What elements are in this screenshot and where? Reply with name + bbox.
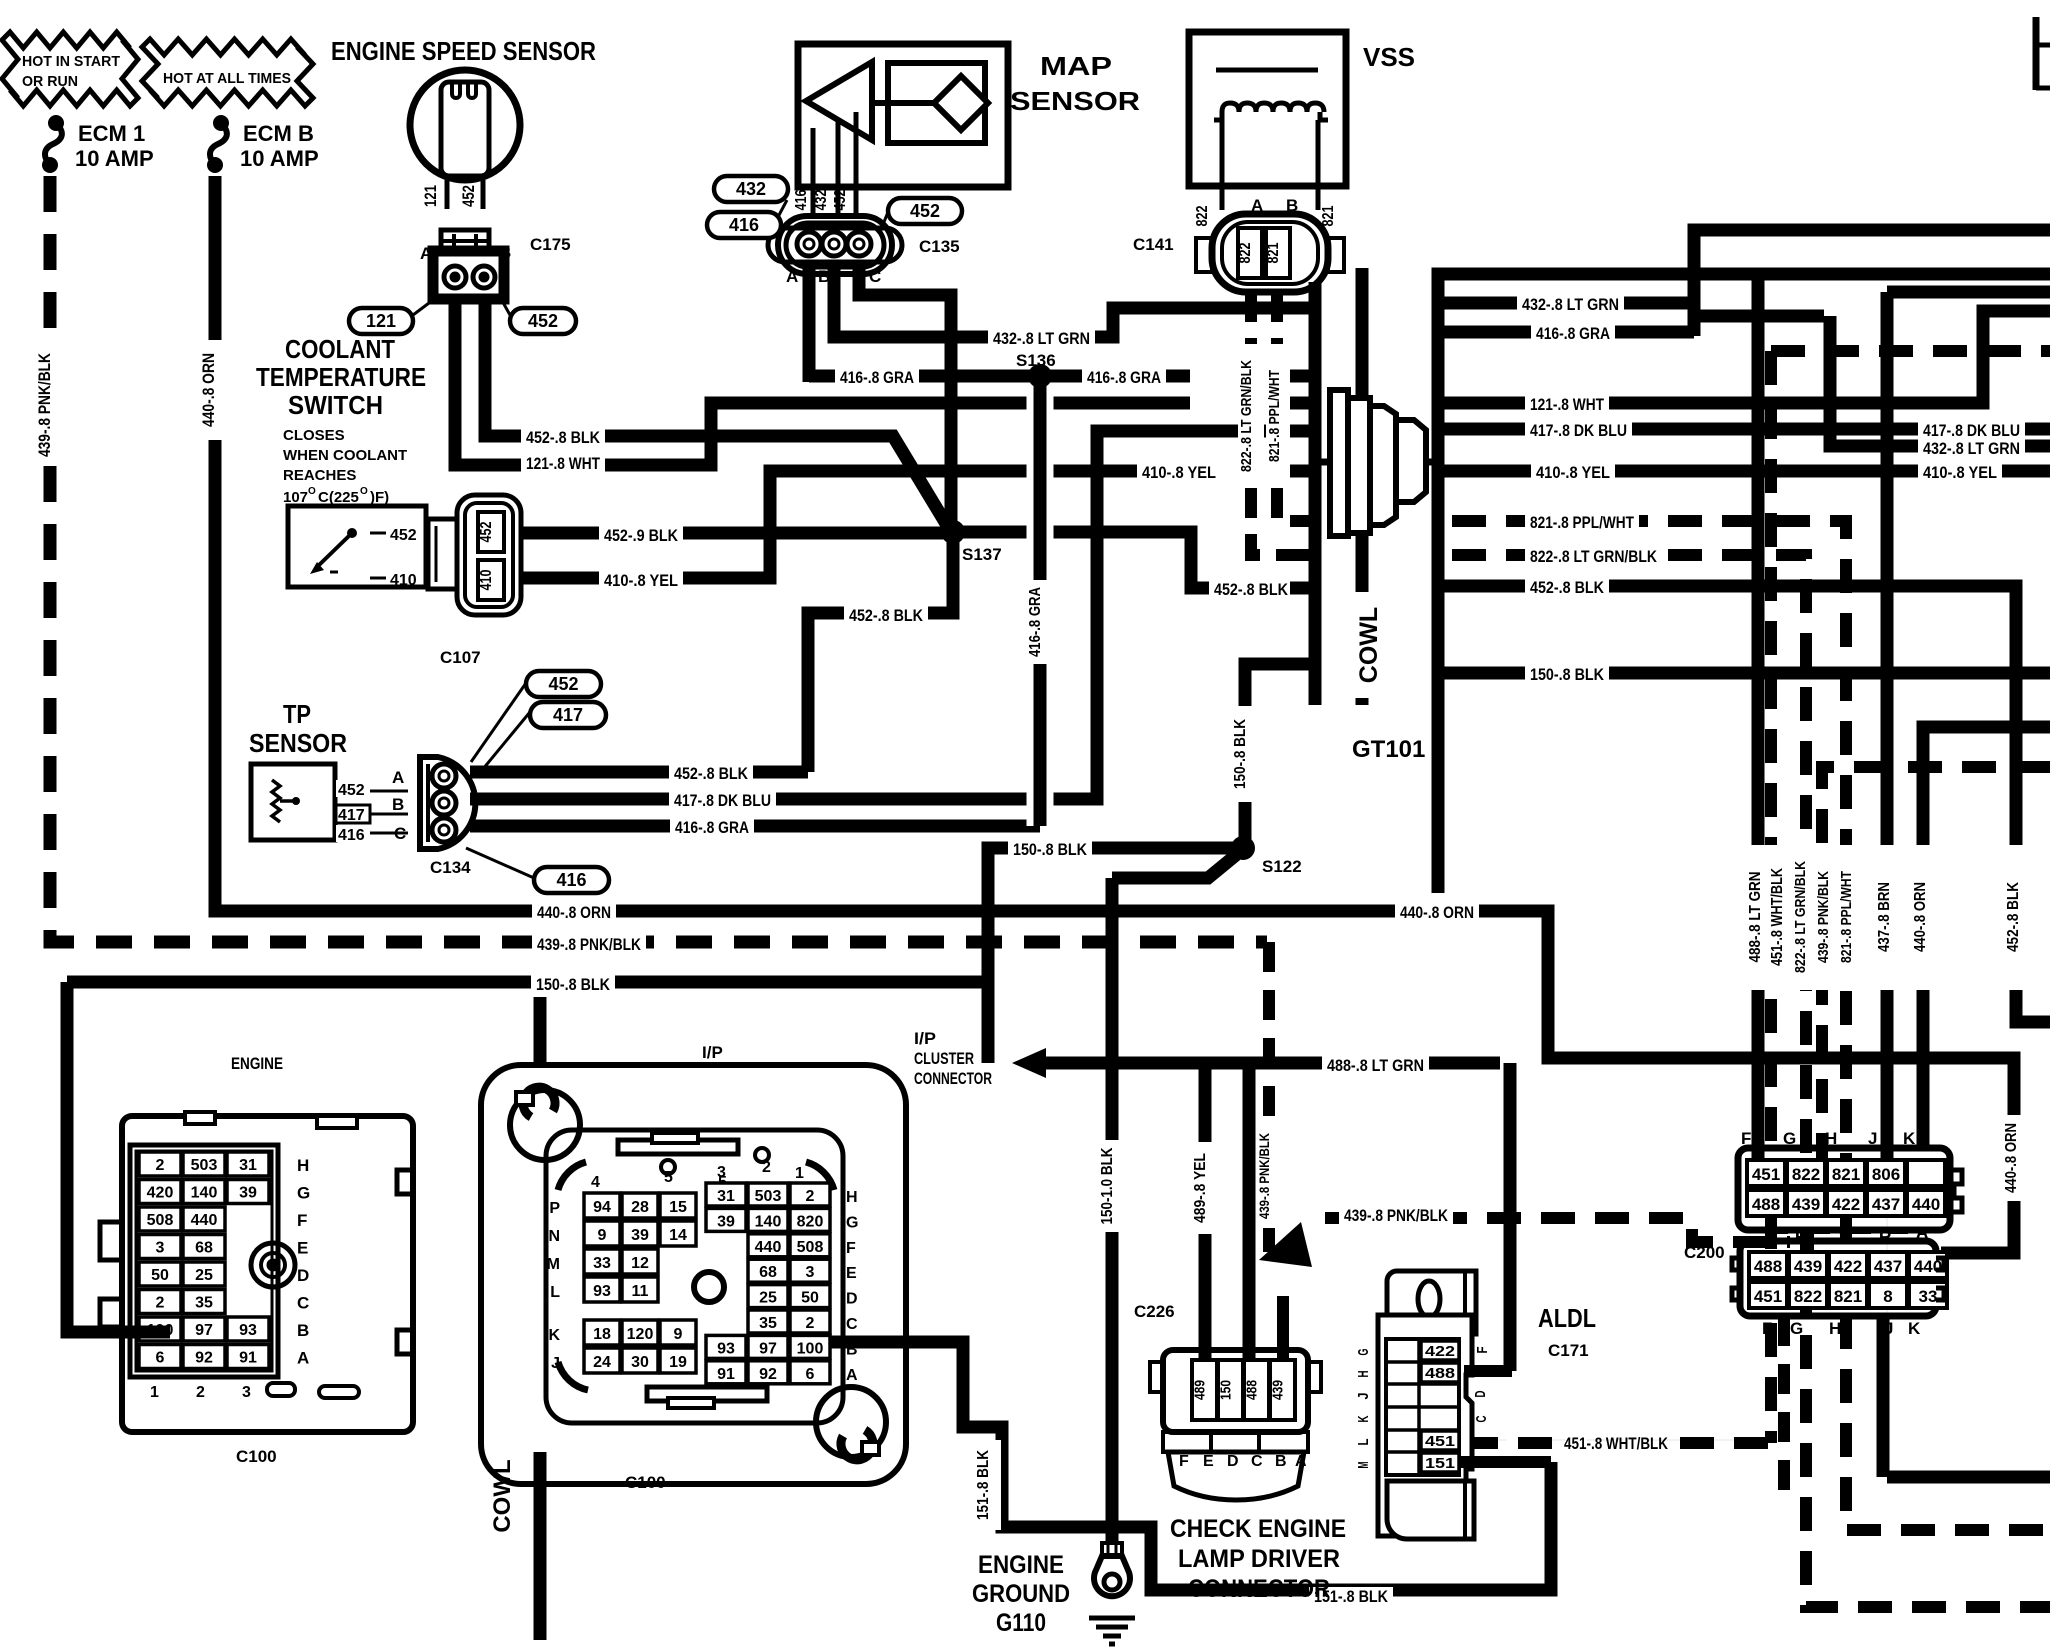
svg-text:416-.8 GRA: 416-.8 GRA bbox=[675, 818, 749, 837]
svg-text:10 AMP: 10 AMP bbox=[75, 146, 154, 171]
svg-text:151: 151 bbox=[1425, 1455, 1455, 1472]
wire 417-.8 DK BLU from C134 B bbox=[470, 431, 1309, 799]
svg-text:151-.8 BLK: 151-.8 BLK bbox=[975, 1450, 992, 1520]
oval label 452 map bbox=[880, 212, 888, 232]
wire 410-.8 YEL right bbox=[1438, 465, 2050, 478]
wire 488 drop to ALDL bbox=[1504, 1063, 1517, 1371]
engine C100 body bbox=[122, 1116, 413, 1432]
svg-text:N: N bbox=[548, 1228, 560, 1245]
dashed 822 down from C141 area bbox=[1811, 555, 1813, 560]
svg-text:C107: C107 bbox=[440, 648, 481, 667]
wire 150 into engine C100 bbox=[67, 982, 170, 1332]
tp sensor box bbox=[251, 764, 335, 840]
svg-text:121-.8 WHT: 121-.8 WHT bbox=[526, 454, 600, 473]
tp pin 416 bbox=[335, 832, 408, 835]
svg-text:ALDL: ALDL bbox=[1538, 1303, 1596, 1333]
svg-text:432-.8 LT GRN: 432-.8 LT GRN bbox=[1923, 439, 2020, 458]
svg-text:488: 488 bbox=[1754, 1257, 1782, 1276]
svg-text:H: H bbox=[297, 1156, 309, 1175]
svg-text:E: E bbox=[1203, 1453, 1214, 1470]
svg-text:437: 437 bbox=[1874, 1257, 1902, 1276]
svg-text:39: 39 bbox=[631, 1227, 649, 1244]
wire 439-.8 PNK/BLK right dashed trunk bbox=[1822, 767, 2050, 1190]
svg-text:CONNECTOR: CONNECTOR bbox=[1188, 1575, 1330, 1603]
label 440-.8 ORN mid bbox=[532, 903, 616, 925]
fuse ECM 1 10 AMP bbox=[48, 115, 64, 131]
svg-text:488: 488 bbox=[1425, 1365, 1455, 1382]
svg-text:COOLANT: COOLANT bbox=[285, 334, 395, 364]
svg-text:K: K bbox=[1903, 1129, 1916, 1148]
svg-text:150-.8 BLK: 150-.8 BLK bbox=[1530, 665, 1605, 684]
connector C134 bbox=[420, 757, 475, 849]
svg-text:G110: G110 bbox=[996, 1609, 1046, 1637]
svg-text:452: 452 bbox=[548, 674, 578, 694]
svg-text:S137: S137 bbox=[962, 545, 1002, 564]
svg-text:439: 439 bbox=[1792, 1195, 1820, 1214]
svg-text:416: 416 bbox=[793, 189, 810, 210]
label 439-.8 PNK/BLK rotated bbox=[1814, 845, 1840, 990]
svg-text:C(225: C(225 bbox=[318, 489, 359, 506]
svg-text:C175: C175 bbox=[530, 235, 571, 254]
svg-text:REACHES: REACHES bbox=[283, 467, 356, 484]
svg-text:107: 107 bbox=[283, 489, 308, 506]
svg-text:452: 452 bbox=[338, 782, 365, 799]
coolant temperature switch box bbox=[288, 506, 426, 587]
svg-text:24: 24 bbox=[593, 1354, 611, 1371]
svg-text:I/P: I/P bbox=[702, 1043, 723, 1062]
connector C141 bbox=[1212, 214, 1328, 292]
wire 150-.8 BLK left of bus bbox=[1245, 664, 1309, 848]
svg-text:TEMPERATURE: TEMPERATURE bbox=[256, 362, 426, 392]
svg-text:821-.8 PPL/WHT: 821-.8 PPL/WHT bbox=[1530, 513, 1634, 532]
label 440-.8 ORN rotated bbox=[201, 340, 227, 440]
svg-text:SWITCH: SWITCH bbox=[288, 390, 383, 420]
svg-text:97: 97 bbox=[195, 1322, 213, 1339]
svg-text:452: 452 bbox=[910, 201, 940, 221]
arrow 439 into C226 bbox=[1259, 1222, 1312, 1267]
svg-text:92: 92 bbox=[195, 1350, 213, 1367]
svg-text:452-.8 BLK: 452-.8 BLK bbox=[526, 428, 601, 447]
cowl trunk below ip C100 bbox=[534, 1452, 547, 1640]
svg-text:416-.8 GRA: 416-.8 GRA bbox=[1536, 324, 1610, 343]
svg-text:ENGINE: ENGINE bbox=[978, 1551, 1064, 1579]
svg-text:11: 11 bbox=[632, 1283, 649, 1300]
svg-text:822-.8 LT GRN/BLK: 822-.8 LT GRN/BLK bbox=[1792, 861, 1809, 973]
svg-text:488-.8 LT GRN: 488-.8 LT GRN bbox=[1747, 872, 1764, 963]
svg-text:SENSOR: SENSOR bbox=[1010, 86, 1140, 116]
vss box bbox=[1189, 32, 1346, 186]
svg-text:E: E bbox=[297, 1239, 308, 1258]
svg-text:C100: C100 bbox=[625, 1473, 666, 1492]
connector C226 lower bbox=[1163, 1432, 1308, 1452]
svg-text:439-.8 PNK/BLK: 439-.8 PNK/BLK bbox=[1256, 1133, 1272, 1219]
svg-text:121: 121 bbox=[366, 311, 396, 331]
svg-text:35: 35 bbox=[195, 1295, 213, 1312]
svg-text:3: 3 bbox=[242, 1384, 251, 1401]
wire 488 branch to C226 bbox=[1243, 1063, 1256, 1362]
connector C171 body top tab bbox=[1387, 1271, 1476, 1334]
svg-text:417-.8 DK BLU: 417-.8 DK BLU bbox=[1530, 421, 1627, 440]
svg-text:9: 9 bbox=[598, 1227, 607, 1244]
svg-text:A: A bbox=[297, 1349, 309, 1368]
svg-text:416: 416 bbox=[729, 215, 759, 235]
svg-text:439-.8 PNK/BLK: 439-.8 PNK/BLK bbox=[537, 935, 642, 954]
svg-text:ENGINE: ENGINE bbox=[231, 1054, 283, 1073]
label 488-.8 LT GRN rotated bbox=[1745, 845, 1773, 990]
wire 416-.8 GRA row with S136 bbox=[809, 370, 1190, 383]
svg-text:HOT AT ALL TIMES: HOT AT ALL TIMES bbox=[163, 70, 291, 87]
svg-text:TP: TP bbox=[283, 699, 311, 729]
cowl right bus bbox=[1438, 274, 2050, 893]
svg-text:432: 432 bbox=[736, 179, 766, 199]
svg-text:D: D bbox=[1795, 1223, 1807, 1242]
svg-text:451-.8 WHT/BLK: 451-.8 WHT/BLK bbox=[1769, 868, 1786, 966]
svg-text:489: 489 bbox=[1192, 1380, 1209, 1400]
svg-text:COWL: COWL bbox=[1355, 607, 1383, 683]
svg-text:489-.8 YEL: 489-.8 YEL bbox=[1192, 1153, 1209, 1223]
svg-text:451: 451 bbox=[1425, 1433, 1455, 1450]
wire 439-.8 PNK/BLK left dashed trunk bbox=[50, 176, 1267, 942]
wire 452 from C135 C bbox=[859, 264, 951, 524]
svg-text:503: 503 bbox=[191, 1157, 218, 1174]
svg-text:452: 452 bbox=[459, 185, 478, 207]
svg-text:100: 100 bbox=[797, 1340, 824, 1357]
svg-text:P: P bbox=[549, 1200, 560, 1217]
svg-text:J: J bbox=[1355, 1393, 1372, 1400]
svg-text:503: 503 bbox=[755, 1188, 782, 1205]
svg-text:A: A bbox=[786, 267, 798, 286]
svg-text:6: 6 bbox=[806, 1366, 815, 1383]
svg-text:A: A bbox=[846, 1367, 858, 1384]
wire 451-.8 WHT/BLK dashed trunk bbox=[1771, 345, 2050, 357]
svg-text:B: B bbox=[392, 795, 404, 814]
svg-text:G: G bbox=[1790, 1319, 1803, 1338]
wire 452-.8 BLK right bbox=[1438, 586, 2050, 1022]
svg-text:821: 821 bbox=[1320, 205, 1337, 226]
wire 437 below C200 bbox=[1877, 1316, 1890, 1477]
svg-text:15: 15 bbox=[669, 1199, 687, 1216]
svg-text:416: 416 bbox=[338, 827, 365, 844]
svg-text:MAP: MAP bbox=[1040, 51, 1112, 81]
svg-text:91: 91 bbox=[239, 1350, 257, 1367]
label 452-.8 BLK S137 drop bbox=[844, 606, 928, 628]
svg-text:439: 439 bbox=[1270, 1380, 1287, 1400]
map sensor op-amp arrow bbox=[806, 62, 872, 140]
svg-text:39: 39 bbox=[239, 1185, 257, 1202]
wire 432 branch to E riser bbox=[1700, 310, 1824, 323]
svg-text:94: 94 bbox=[593, 1199, 611, 1216]
wire 821-.8 PPL/WHT dashed right bbox=[1452, 521, 2050, 1530]
svg-text:121-.8 WHT: 121-.8 WHT bbox=[1530, 395, 1604, 414]
svg-text:4: 4 bbox=[591, 1174, 600, 1191]
svg-text:6: 6 bbox=[156, 1350, 165, 1367]
svg-text:416-.8 GRA: 416-.8 GRA bbox=[1087, 368, 1161, 387]
wire 416-.8 GRA from C134 C bbox=[470, 820, 1040, 833]
ip C100 body bbox=[481, 1065, 906, 1484]
svg-text:68: 68 bbox=[195, 1240, 213, 1257]
ip C100 inner bbox=[546, 1130, 843, 1423]
wire 440-.8 ORN right trunk bbox=[1923, 727, 2050, 1148]
svg-text:50: 50 bbox=[801, 1290, 819, 1307]
fuse ECM B 10 AMP bbox=[213, 115, 229, 131]
label 440-.8 ORN rotated bbox=[1910, 845, 1938, 990]
oval label 121 bbox=[413, 297, 437, 315]
splice S122 bbox=[1231, 836, 1255, 860]
svg-text:LAMP DRIVER: LAMP DRIVER bbox=[1178, 1545, 1340, 1573]
svg-text:J: J bbox=[1868, 1129, 1877, 1148]
connector C135 bbox=[778, 216, 892, 274]
svg-text:150: 150 bbox=[1218, 1380, 1235, 1400]
svg-text:822-.8 LT GRN/BLK: 822-.8 LT GRN/BLK bbox=[1238, 360, 1255, 472]
svg-text:2: 2 bbox=[806, 1315, 815, 1332]
svg-text:416-.8 GRA: 416-.8 GRA bbox=[840, 368, 914, 387]
svg-text:2: 2 bbox=[196, 1384, 205, 1401]
svg-text:821-.8 PPL/WHT: 821-.8 PPL/WHT bbox=[1266, 370, 1283, 462]
svg-text:9: 9 bbox=[674, 1326, 683, 1343]
connector C171 body bbox=[1378, 1315, 1472, 1536]
svg-text:410-.8 YEL: 410-.8 YEL bbox=[1536, 463, 1610, 482]
svg-text:508: 508 bbox=[147, 1212, 174, 1229]
svg-text:OR RUN: OR RUN bbox=[22, 73, 78, 90]
engine C100 grid bbox=[130, 1145, 278, 1377]
svg-text:440: 440 bbox=[1912, 1195, 1940, 1214]
svg-text:C200: C200 bbox=[1684, 1243, 1725, 1262]
connector C107 bbox=[428, 519, 457, 589]
svg-text:821: 821 bbox=[1834, 1287, 1862, 1306]
wire 121-.8 WHT from C175 A bbox=[455, 299, 1190, 465]
wire 150-1.0 BLK trunk bbox=[1106, 878, 1119, 1543]
svg-text:C: C bbox=[297, 1294, 309, 1313]
svg-text:821: 821 bbox=[1832, 1165, 1860, 1184]
label 822-.8 LT GRN/BLK rotated bbox=[1791, 845, 1817, 990]
wire 410-.8 YEL from C107 bbox=[521, 471, 1190, 578]
tp pin 417 bbox=[335, 813, 408, 816]
svg-text:M: M bbox=[547, 1256, 560, 1273]
svg-text:121: 121 bbox=[421, 185, 440, 207]
svg-text:L: L bbox=[550, 1284, 560, 1301]
splice S136 bbox=[1028, 364, 1052, 388]
svg-text:A: A bbox=[392, 768, 404, 787]
vss coil bbox=[1222, 103, 1324, 112]
svg-text:417: 417 bbox=[553, 705, 583, 725]
wire 437-.8 BRN trunk bbox=[1887, 286, 2050, 299]
svg-text:33: 33 bbox=[593, 1255, 611, 1272]
engine speed sensor leads bbox=[445, 180, 450, 209]
svg-text:D: D bbox=[1227, 1453, 1239, 1470]
svg-text:417-.8 DK BLU: 417-.8 DK BLU bbox=[1923, 421, 2020, 440]
svg-text:L: L bbox=[1355, 1439, 1372, 1446]
svg-text:2: 2 bbox=[156, 1295, 165, 1312]
cowl left bus bbox=[1309, 282, 1322, 664]
svg-text:822: 822 bbox=[1794, 1287, 1822, 1306]
wires below C200 dashed bbox=[1778, 1316, 1790, 1500]
wire 417-.8 DK BLU right bbox=[1438, 423, 2050, 436]
connector C226 body bbox=[1163, 1350, 1308, 1432]
wire 432-.8 LT GRN from C135 B bbox=[834, 264, 1309, 337]
svg-text:D: D bbox=[297, 1266, 309, 1285]
svg-text:452: 452 bbox=[832, 189, 849, 210]
wire 451-.8 WHT/BLK dashed bottom bbox=[1464, 1437, 1771, 1449]
svg-text:451: 451 bbox=[1754, 1287, 1782, 1306]
wire 452-.8 BLK S137 to bus bbox=[808, 540, 953, 772]
svg-text:410-.8 YEL: 410-.8 YEL bbox=[1142, 463, 1216, 482]
svg-text:25: 25 bbox=[195, 1267, 213, 1284]
svg-text:440-.8 ORN: 440-.8 ORN bbox=[1912, 882, 1929, 952]
svg-text:452-.8 BLK: 452-.8 BLK bbox=[849, 606, 924, 625]
svg-text:451: 451 bbox=[1752, 1165, 1780, 1184]
ground symbol bbox=[1089, 1616, 1135, 1621]
svg-text:452: 452 bbox=[390, 527, 417, 544]
label 440-.8 ORN rotated lower bbox=[2001, 1115, 2029, 1201]
svg-text:93: 93 bbox=[239, 1322, 257, 1339]
switch pin 452 bbox=[370, 532, 386, 535]
ip C100 right grid bbox=[706, 1183, 746, 1206]
svg-text:O: O bbox=[308, 486, 316, 497]
wire 416 from C135 A bbox=[803, 264, 816, 382]
wire 432-.8 LT GRN lower right bbox=[1830, 316, 2050, 446]
wire 822-.8 LT GRN/BLK dashed from C141 bbox=[1245, 292, 1257, 344]
svg-text:28: 28 bbox=[631, 1199, 649, 1216]
svg-text:C135: C135 bbox=[919, 237, 960, 256]
svg-text:H: H bbox=[1829, 1319, 1841, 1338]
wire 437 lower bbox=[1886, 1164, 1888, 1477]
svg-text:33: 33 bbox=[1919, 1287, 1938, 1306]
connector C200 upper bbox=[1738, 1148, 1950, 1230]
svg-text:F: F bbox=[1179, 1453, 1189, 1470]
svg-text:452-.8 BLK: 452-.8 BLK bbox=[2005, 882, 2022, 952]
wire 432-.8 LT GRN right bbox=[1438, 230, 2050, 303]
cowl trunk above ip C100 bbox=[534, 982, 547, 1065]
wire 416-.8 GRA riser to TP bbox=[1027, 386, 1054, 826]
svg-text:488: 488 bbox=[1752, 1195, 1780, 1214]
svg-text:452-.8 BLK: 452-.8 BLK bbox=[674, 764, 749, 783]
wire 439-.8 PNK/BLK dashed to C200 bbox=[1325, 1218, 1790, 1242]
connector C200 lower bbox=[1740, 1241, 1936, 1316]
svg-text:B: B bbox=[1275, 1453, 1287, 1470]
svg-text:F: F bbox=[1474, 1347, 1491, 1354]
svg-text:440-.8 ORN: 440-.8 ORN bbox=[537, 903, 611, 922]
svg-text:422: 422 bbox=[1832, 1195, 1860, 1214]
svg-text:A: A bbox=[1295, 1453, 1307, 1470]
svg-text:410: 410 bbox=[390, 572, 417, 589]
svg-text:2: 2 bbox=[156, 1157, 165, 1174]
connector C171 bottom tab bbox=[1387, 1481, 1474, 1539]
svg-text:432-.8 LT GRN: 432-.8 LT GRN bbox=[1522, 295, 1619, 314]
svg-text:822: 822 bbox=[1194, 205, 1211, 226]
svg-text:822-.8 LT GRN/BLK: 822-.8 LT GRN/BLK bbox=[1530, 547, 1658, 566]
svg-text:S122: S122 bbox=[1262, 857, 1302, 876]
svg-text:97: 97 bbox=[759, 1340, 777, 1357]
oval label 416 tp bbox=[466, 848, 534, 878]
label 821-.8 PPL/WHT rotated bbox=[1837, 845, 1863, 990]
svg-text:C100: C100 bbox=[236, 1447, 277, 1466]
svg-text:D: D bbox=[1472, 1390, 1489, 1397]
wire 452-.8 BLK from C134 A bbox=[470, 766, 808, 779]
wire 150-.8 BLK right bbox=[1438, 667, 2050, 680]
wire 452-.9 BLK from C107 bbox=[521, 527, 944, 540]
svg-text:K: K bbox=[1908, 1319, 1921, 1338]
svg-text:J: J bbox=[551, 1355, 560, 1372]
wire 821-.8 PPL/WHT dashed from C141 bbox=[1271, 292, 1283, 344]
svg-text:140: 140 bbox=[191, 1185, 218, 1202]
svg-text:A: A bbox=[1916, 1223, 1928, 1242]
label 151-.8 BLK rotated bbox=[975, 1440, 1001, 1530]
svg-text:B: B bbox=[1879, 1223, 1891, 1242]
svg-text:G: G bbox=[1355, 1349, 1372, 1356]
ip cluster arrow bbox=[1012, 1048, 1046, 1078]
svg-text:416-.8 GRA: 416-.8 GRA bbox=[1027, 587, 1044, 657]
svg-text:439-.8 PNK/BLK: 439-.8 PNK/BLK bbox=[1344, 1206, 1449, 1225]
svg-text:F: F bbox=[1741, 1129, 1751, 1148]
svg-text:150-1.0 BLK: 150-1.0 BLK bbox=[1099, 1147, 1116, 1224]
svg-text:439-.8 PNK/BLK: 439-.8 PNK/BLK bbox=[35, 352, 54, 457]
svg-text:O: O bbox=[360, 486, 368, 497]
svg-text:ENGINE SPEED SENSOR: ENGINE SPEED SENSOR bbox=[331, 36, 596, 66]
svg-text:D: D bbox=[846, 1291, 858, 1308]
svg-text:M: M bbox=[1355, 1462, 1372, 1469]
svg-text:GT101: GT101 bbox=[1352, 736, 1425, 763]
oval label 417 tp bbox=[478, 712, 530, 775]
svg-text:452-.9 BLK: 452-.9 BLK bbox=[604, 526, 679, 545]
svg-text:822: 822 bbox=[1792, 1165, 1820, 1184]
svg-text:437-.8 BRN: 437-.8 BRN bbox=[1876, 882, 1893, 952]
wire 452-.8 BLK from C175 B bbox=[485, 299, 948, 527]
wire 440-.8 ORN left trunk bbox=[215, 176, 2014, 1253]
wire 488 into ALDL bbox=[1464, 1365, 1512, 1377]
oval label 416 map bbox=[775, 226, 781, 235]
svg-text:452: 452 bbox=[528, 311, 558, 331]
label 452-.8 BLK at bus bbox=[1209, 580, 1293, 602]
wire 150-.8 BLK bottom row bbox=[67, 976, 988, 989]
svg-text:150-.8 BLK: 150-.8 BLK bbox=[536, 975, 611, 994]
svg-text:B: B bbox=[297, 1321, 309, 1340]
svg-text:822: 822 bbox=[1237, 242, 1254, 263]
svg-text:19: 19 bbox=[669, 1354, 687, 1371]
splice S137 bbox=[941, 520, 965, 544]
connector C171 grid bbox=[1386, 1339, 1459, 1475]
svg-text:410-.8 YEL: 410-.8 YEL bbox=[1923, 463, 1997, 482]
svg-text:G: G bbox=[846, 1214, 858, 1231]
svg-text:432-.8 LT GRN: 432-.8 LT GRN bbox=[993, 329, 1090, 348]
svg-text:F: F bbox=[846, 1240, 856, 1257]
svg-text:VSS: VSS bbox=[1363, 42, 1415, 72]
svg-text:CLUSTER: CLUSTER bbox=[914, 1049, 974, 1068]
svg-text:G: G bbox=[1783, 1129, 1796, 1148]
label 121-.8 WHT bbox=[521, 454, 605, 476]
svg-text:432: 432 bbox=[813, 189, 830, 210]
svg-text:F: F bbox=[1762, 1319, 1772, 1338]
svg-text:12: 12 bbox=[631, 1255, 649, 1272]
svg-text:140: 140 bbox=[755, 1213, 782, 1230]
svg-text:3: 3 bbox=[717, 1164, 726, 1181]
wire 151 stub from ALDL bbox=[1459, 1456, 1551, 1468]
wire 150-.8 BLK S122 diagonal to ground trunk bbox=[1112, 855, 1236, 878]
svg-text:420: 420 bbox=[147, 1185, 174, 1202]
svg-text:H: H bbox=[846, 1189, 858, 1206]
svg-text:C: C bbox=[869, 267, 881, 286]
map sensor box bbox=[798, 44, 1008, 187]
map sensor leads bbox=[811, 128, 816, 219]
svg-text:)F): )F) bbox=[370, 489, 389, 506]
svg-text:3: 3 bbox=[806, 1264, 815, 1281]
label 488-.8 LT GRN bbox=[1322, 1056, 1429, 1078]
svg-text:A: A bbox=[420, 244, 432, 263]
svg-text:14: 14 bbox=[669, 1227, 687, 1244]
wire 151-.8 BLK from ip C100 bbox=[829, 1342, 1551, 1590]
svg-text:821: 821 bbox=[1265, 242, 1282, 263]
oval label 452 tp bbox=[471, 683, 526, 762]
svg-text:8: 8 bbox=[1883, 1287, 1892, 1306]
